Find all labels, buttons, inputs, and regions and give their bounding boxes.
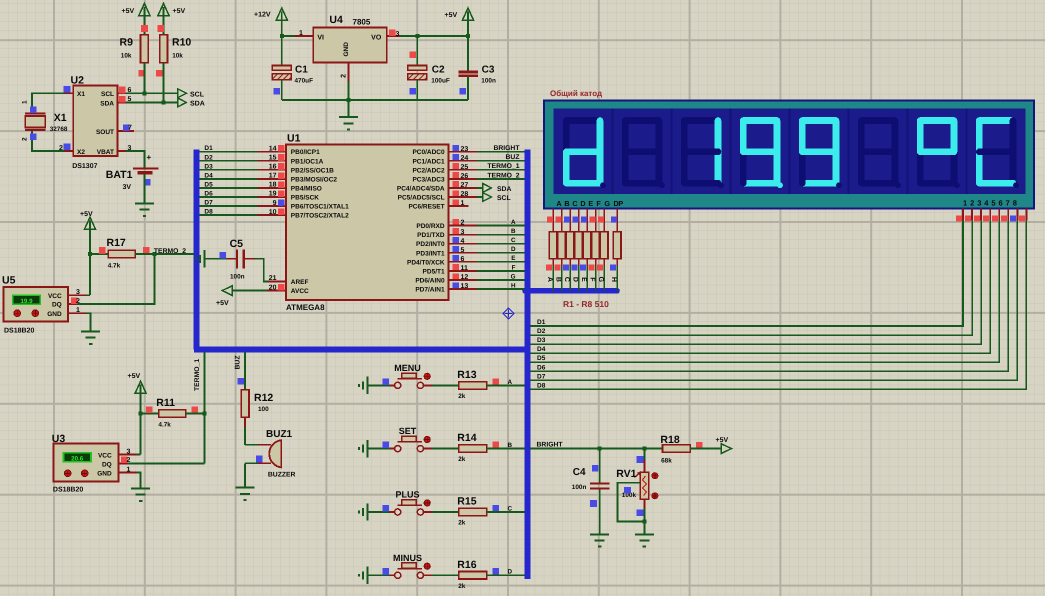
button MINUS [390, 574, 395, 576]
decimal point 4 [836, 182, 842, 188]
wire RV1 bottom [643, 499, 645, 508]
marker R18 red [696, 442, 703, 449]
marker seg bottom [597, 265, 603, 271]
svg-text:PC6/RESET: PC6/RESET [408, 204, 444, 211]
wire PLUS to R15 [424, 511, 432, 513]
svg-text:1: 1 [76, 307, 80, 314]
marker crystal bottom blue [30, 133, 37, 140]
svg-text:C: C [507, 505, 512, 512]
svg-text:VO: VO [371, 34, 382, 41]
wire D2 to pin 15 [199, 160, 257, 162]
svg-text:PB3/MOSI/OC2: PB3/MOSI/OC2 [291, 176, 338, 183]
power +5V arrow top right [462, 8, 473, 20]
svg-text:VCC: VCC [98, 453, 112, 460]
svg-text:PC3/ADC3: PC3/ADC3 [412, 176, 445, 183]
power +5V arrow AVCC [222, 286, 232, 296]
svg-text:C5: C5 [230, 238, 244, 250]
svg-text:U2: U2 [71, 74, 85, 86]
svg-text:E: E [588, 199, 593, 208]
decimal point 6 [954, 182, 960, 188]
marker seg bottom [580, 265, 586, 271]
marker RV1 blue top [637, 456, 644, 463]
svg-text:D: D [580, 199, 585, 208]
wire RV1 top pin [643, 460, 645, 472]
svg-text:H: H [610, 277, 617, 282]
ground for C4 [590, 534, 609, 546]
marker seg top [598, 216, 604, 222]
svg-text:20: 20 [269, 284, 277, 291]
svg-text:GND: GND [343, 42, 350, 57]
svg-text:3V: 3V [123, 184, 132, 191]
svg-text:+12V: +12V [254, 12, 271, 19]
resistor R2 [558, 232, 566, 259]
svg-text:R12: R12 [254, 392, 273, 404]
wire display pin 8 [1025, 209, 1027, 221]
wire SDA out [477, 187, 483, 189]
svg-text:G: G [597, 277, 604, 283]
wire MINUS to R16 [424, 574, 432, 576]
svg-text:B: B [555, 277, 562, 282]
svg-text:R18: R18 [660, 434, 679, 446]
svg-text:D6: D6 [204, 191, 213, 198]
wire D7 to pin 9 [199, 205, 257, 207]
digit 0 shows 'd' [566, 117, 600, 124]
power +5V arrow R17 [84, 217, 95, 229]
wire +5V down to VCC [89, 229, 91, 295]
button MENU [390, 384, 395, 386]
marker C4 blue bottom [590, 500, 597, 507]
marker VO red [389, 30, 396, 37]
bus stub to resistor pack R1-R8 [525, 288, 617, 294]
marker seg top [581, 216, 587, 222]
svg-text:D7: D7 [204, 200, 213, 207]
LCD readout U5 [13, 295, 41, 304]
LCD readout U3 [64, 453, 92, 462]
ground for U5 [81, 332, 100, 344]
decimal point 7 [1013, 182, 1019, 188]
svg-text:PD6/AIN0: PD6/AIN0 [415, 277, 445, 284]
pin 5 SDA of U2 [118, 101, 127, 103]
svg-text:3: 3 [127, 448, 131, 455]
wire +5V vertical [467, 20, 469, 72]
svg-text:RV1: RV1 [616, 468, 636, 480]
digit 2 shows '1' [684, 117, 718, 124]
ground left of C5 [196, 250, 204, 267]
wire display segment D down [578, 209, 580, 232]
svg-text:R11: R11 [156, 397, 175, 409]
svg-text:U3: U3 [52, 433, 66, 445]
svg-text:1: 1 [299, 30, 303, 37]
wire D4 to pin 17 [199, 178, 257, 180]
digit 4 shows '9' [802, 117, 836, 124]
decimal point 0 [600, 182, 606, 188]
resistor R16 [459, 572, 487, 580]
svg-text:D4: D4 [204, 172, 213, 179]
wire display pin 3 [980, 209, 982, 221]
svg-text:2k: 2k [458, 393, 466, 400]
pin 7 SOUT of U2 [118, 130, 135, 132]
wire SDA to arrow [126, 101, 178, 103]
no-ERC diamond marker [503, 308, 514, 319]
marker R9 bottom red [139, 70, 146, 77]
svg-text:100: 100 [258, 406, 269, 413]
marker crystal top blue [30, 106, 37, 113]
svg-text:20.6: 20.6 [71, 456, 84, 463]
svg-text:SDA: SDA [190, 101, 205, 108]
svg-text:PD0/RXD: PD0/RXD [416, 223, 444, 230]
wire display segment A down [552, 209, 554, 232]
svg-text:C: C [511, 237, 516, 244]
svg-text:18: 18 [269, 182, 277, 189]
wire +12V to VI and C1 [281, 20, 283, 66]
svg-text:AREF: AREF [291, 279, 309, 286]
svg-text:15: 15 [269, 154, 277, 161]
wire C2 branch [416, 36, 418, 65]
svg-text:SDA: SDA [497, 186, 511, 193]
svg-text:DS18B20: DS18B20 [53, 487, 83, 494]
wire R18 to +5V [690, 448, 721, 450]
bus right vertical [525, 150, 531, 580]
wire X1 bottom [32, 130, 65, 151]
svg-text:PB1/OC1A: PB1/OC1A [291, 158, 324, 165]
wire X1 top [32, 93, 65, 113]
marker RV1 blue bottom [637, 509, 644, 516]
svg-text:3: 3 [396, 31, 400, 38]
sensor U3 DS18B20 [54, 444, 119, 482]
sensor U5 DS18B20 [3, 287, 67, 322]
marker seg bottom [571, 265, 577, 271]
wire to pack bus [578, 259, 580, 266]
svg-text:DQ: DQ [52, 302, 62, 309]
svg-text:X1: X1 [54, 112, 67, 124]
ground for BUZ1 [236, 488, 255, 500]
resistor R12 [241, 390, 249, 418]
marker MENU blue [383, 378, 390, 385]
svg-text:7: 7 [128, 125, 132, 132]
marker R10 top red [158, 25, 165, 32]
svg-text:X2: X2 [77, 149, 85, 156]
marker C5 blue [220, 252, 227, 259]
svg-text:PD2/INT0: PD2/INT0 [416, 241, 445, 248]
marker seg top [564, 216, 570, 222]
wire net A [477, 225, 525, 227]
svg-text:X1: X1 [77, 91, 85, 98]
svg-text:TERMO_2: TERMO_2 [154, 248, 186, 255]
wire D3 to pin 16 [199, 169, 257, 171]
capacitor C1 [272, 66, 291, 71]
wire display pin 7 [1016, 209, 1018, 221]
svg-text:D: D [572, 277, 579, 282]
svg-text:GND: GND [97, 471, 112, 478]
pin 1 X1 of U2 [65, 92, 74, 94]
wire net TERMO_1 [477, 169, 525, 171]
wire battery to ground [144, 174, 146, 203]
wire R9 top [143, 16, 145, 35]
power +5V arrow R10 [158, 3, 169, 15]
marker R17 right red [143, 247, 150, 254]
marker R17 left red [99, 247, 106, 254]
svg-text:2: 2 [76, 298, 80, 305]
svg-text:D1: D1 [537, 319, 546, 326]
svg-text:AVCC: AVCC [291, 288, 309, 295]
svg-text:R13: R13 [457, 369, 476, 381]
wire net D [477, 252, 525, 254]
svg-text:PD5/T1: PD5/T1 [423, 268, 445, 275]
svg-text:TERMO_1: TERMO_1 [487, 163, 519, 170]
terminal SDA arrow U1 [483, 184, 492, 193]
svg-text:G: G [511, 273, 516, 280]
resistor R5 [583, 232, 591, 259]
wire R12 bottom [244, 417, 246, 427]
svg-text:A: A [546, 277, 553, 282]
svg-text:PB6/TOSC1/XTAL1: PB6/TOSC1/XTAL1 [291, 204, 349, 211]
wire C4 to ground [599, 489, 601, 534]
terminal SCL arrow U1 [483, 193, 492, 202]
wire net E [477, 261, 525, 263]
svg-text:19: 19 [269, 191, 277, 198]
power +5V arrow R11 [135, 381, 146, 393]
display inner panel [554, 109, 1026, 195]
marker RV1 blue mid [624, 487, 631, 494]
svg-text:H: H [511, 282, 516, 289]
wire C1 to rail [281, 80, 283, 100]
svg-text:10k: 10k [121, 53, 132, 60]
svg-text:F: F [589, 277, 596, 282]
resistor R4 [575, 232, 583, 259]
svg-text:+: + [147, 153, 152, 162]
marker R13 red [493, 378, 500, 385]
svg-text:D3: D3 [204, 163, 213, 170]
wire C5 left [227, 258, 237, 260]
svg-text:R10: R10 [172, 37, 191, 49]
svg-text:B: B [564, 199, 569, 208]
svg-text:PB4/MISO: PB4/MISO [291, 185, 322, 192]
resistor R9 [141, 35, 149, 63]
wire DQ U3 to riser [128, 462, 205, 464]
svg-text:100n: 100n [481, 78, 496, 85]
svg-text:4.7k: 4.7k [108, 262, 121, 269]
resistor R14 [459, 445, 487, 453]
wire to pack bus [586, 259, 588, 266]
marker seg top [611, 216, 617, 222]
svg-text:D8: D8 [204, 209, 213, 216]
wire PLUS left [368, 511, 390, 513]
marker PLUS blue [383, 505, 390, 512]
wire U5 GND to ground [86, 313, 91, 331]
svg-text:PLUS: PLUS [395, 490, 419, 500]
wire SCL out [477, 196, 483, 198]
pin 3 VCC of U3 [118, 454, 136, 456]
wire C3 to rail [467, 77, 469, 100]
buzzer BUZ1 [269, 440, 281, 467]
svg-text:100n: 100n [572, 484, 587, 491]
ground for BAT1 [135, 203, 154, 215]
svg-text:2k: 2k [458, 456, 466, 463]
ground for SET [359, 440, 367, 457]
decimal point 5 [895, 182, 901, 188]
svg-text:SCL: SCL [497, 195, 511, 202]
wire TERMO_1 riser [204, 352, 206, 463]
svg-text:C2: C2 [432, 65, 445, 76]
power +5V arrow R18 [721, 444, 731, 454]
wire net F [477, 270, 525, 272]
power +5V arrow R9 [139, 3, 150, 15]
pin 2 X2 of U2 [65, 150, 74, 152]
svg-text:PD1/TXD: PD1/TXD [417, 232, 445, 239]
svg-text:R14: R14 [457, 432, 476, 444]
resistor R3 [566, 232, 574, 259]
wire BUZ from bus [244, 352, 246, 390]
svg-text:1: 1 [127, 466, 131, 473]
svg-text:MINUS: MINUS [393, 553, 422, 563]
wire to pack bus [569, 259, 571, 266]
wire D8 to pin 10 [199, 214, 257, 216]
svg-text:10: 10 [269, 209, 277, 216]
svg-text:SOUT: SOUT [96, 129, 114, 136]
digit cell separator 6 [907, 109, 909, 195]
digit cell separator 3 [730, 109, 732, 195]
button SET [390, 448, 395, 450]
wire to pack bus [595, 259, 597, 266]
marker battery blue [144, 179, 151, 186]
regulator U4 7805 [313, 28, 387, 63]
svg-text:19.9: 19.9 [20, 298, 33, 305]
wire display pin 5 [998, 209, 1000, 221]
svg-text:BUZ: BUZ [235, 356, 242, 370]
svg-text:B: B [511, 228, 516, 235]
pin 3 VCC of U5 [68, 294, 86, 296]
svg-text:PB0/ICP1: PB0/ICP1 [291, 149, 320, 156]
svg-text:C: C [563, 277, 570, 282]
wire C4 branch [599, 449, 601, 483]
svg-text:5: 5 [991, 198, 995, 207]
digit 3 shows '9' [743, 117, 777, 124]
wire MINUS left [368, 574, 390, 576]
svg-text:D5: D5 [204, 181, 213, 188]
wire R14 to bus [487, 448, 525, 450]
marker R11 right red [191, 406, 198, 413]
marker seg top [555, 216, 561, 222]
ground for U4 [339, 117, 358, 129]
pin 15 PB1/OC1A [258, 160, 286, 162]
wire display pin 4 [989, 209, 991, 221]
svg-text:16: 16 [269, 164, 277, 171]
wire D6 to pin 19 [199, 196, 257, 198]
ground for RV1 [635, 534, 654, 546]
wire U4 GND pin2 [348, 63, 350, 82]
svg-text:SCL: SCL [101, 91, 114, 98]
svg-text:VI: VI [317, 34, 324, 41]
wire DQ riser U5 [77, 254, 154, 304]
pin 2 DQ of U3 [118, 462, 128, 464]
wire display pin 2 [971, 209, 973, 221]
wire SET to R14 [424, 448, 432, 450]
svg-text:D: D [511, 246, 516, 253]
svg-text:R15: R15 [457, 496, 476, 508]
pin 9 PB6/TOSC1/XTAL1 [258, 205, 286, 207]
terminals RV1 [652, 473, 658, 479]
marker SET blue [383, 442, 390, 449]
svg-text:PC4/ADC4/SDA: PC4/ADC4/SDA [397, 185, 445, 192]
wire R10 bottom to SDA [163, 63, 165, 103]
digit cell separator 4 [789, 109, 791, 195]
svg-text:A: A [511, 219, 516, 226]
wire R17 left [90, 253, 108, 255]
ground rail wire [282, 99, 468, 101]
pin 6 SCL of U2 [118, 92, 127, 94]
wire C5 right to AREF [244, 258, 255, 260]
svg-text:2: 2 [970, 198, 974, 207]
svg-text:U1: U1 [287, 133, 301, 145]
svg-text:F: F [512, 264, 516, 271]
ground for U3 [131, 489, 150, 501]
svg-text:C1: C1 [295, 65, 308, 76]
pin 16 PB2/SS/OC1B [258, 169, 286, 171]
digit 7 shows 'C' [979, 117, 1013, 124]
svg-text:BRIGHT: BRIGHT [493, 145, 520, 152]
svg-text:VCC: VCC [48, 293, 62, 300]
svg-text:3: 3 [977, 198, 981, 207]
resistor R10 [160, 35, 168, 63]
svg-text:PD7/AIN1: PD7/AIN1 [415, 287, 445, 294]
wire RV1 wiper loop [618, 483, 645, 522]
svg-text:PD3/INT1: PD3/INT1 [416, 250, 445, 257]
digit 5 shows ' ' [861, 117, 895, 124]
digit cell separator 5 [848, 109, 850, 195]
wire display segment G down [603, 209, 605, 232]
svg-text:3: 3 [76, 289, 80, 296]
capacitor C2 [408, 66, 427, 71]
marker R10 bottom red [156, 70, 163, 77]
decimal point 2 [718, 182, 724, 188]
bus left vertical [194, 150, 200, 350]
marker C4 blue top [592, 465, 599, 472]
svg-text:D3: D3 [537, 337, 546, 344]
svg-text:DQ: DQ [102, 461, 112, 468]
terminal SDA arrow [178, 98, 187, 107]
svg-text:100n: 100n [230, 273, 245, 280]
svg-text:BUZ1: BUZ1 [266, 429, 293, 440]
wire net TERMO_2 [477, 178, 525, 180]
wire MENU left [368, 384, 390, 386]
resistor R15 [459, 508, 487, 516]
screw buttons U3 [64, 470, 71, 477]
resistor R6 [592, 232, 600, 259]
svg-text:BUZ: BUZ [506, 154, 520, 161]
wire buzzer to ground [244, 463, 246, 487]
svg-text:G: G [604, 199, 610, 208]
digit cell separator 1 [612, 109, 614, 195]
marker C1 blue [273, 88, 280, 95]
wire R13 to bus [487, 384, 525, 386]
svg-text:D4: D4 [537, 346, 546, 353]
decimal point 3 [777, 182, 783, 188]
svg-text:2k: 2k [458, 583, 466, 590]
wire display segment F down [595, 209, 597, 232]
ground for MINUS [359, 567, 367, 584]
wire D5 to pin 18 [199, 187, 257, 189]
svg-text:21: 21 [269, 275, 277, 282]
svg-text:ATMEGA8: ATMEGA8 [286, 303, 325, 312]
wire net C [477, 243, 525, 245]
pin 1 GND of U5 [68, 312, 86, 314]
wire MENU to R13 [424, 384, 432, 386]
resistor R1 [549, 232, 557, 259]
wire to pack bus [616, 259, 618, 266]
pin 10 PB7/TOSC2/XTAL2 [258, 214, 286, 216]
svg-text:PC2/ADC2: PC2/ADC2 [412, 167, 445, 174]
marker R16 blue [493, 568, 500, 575]
